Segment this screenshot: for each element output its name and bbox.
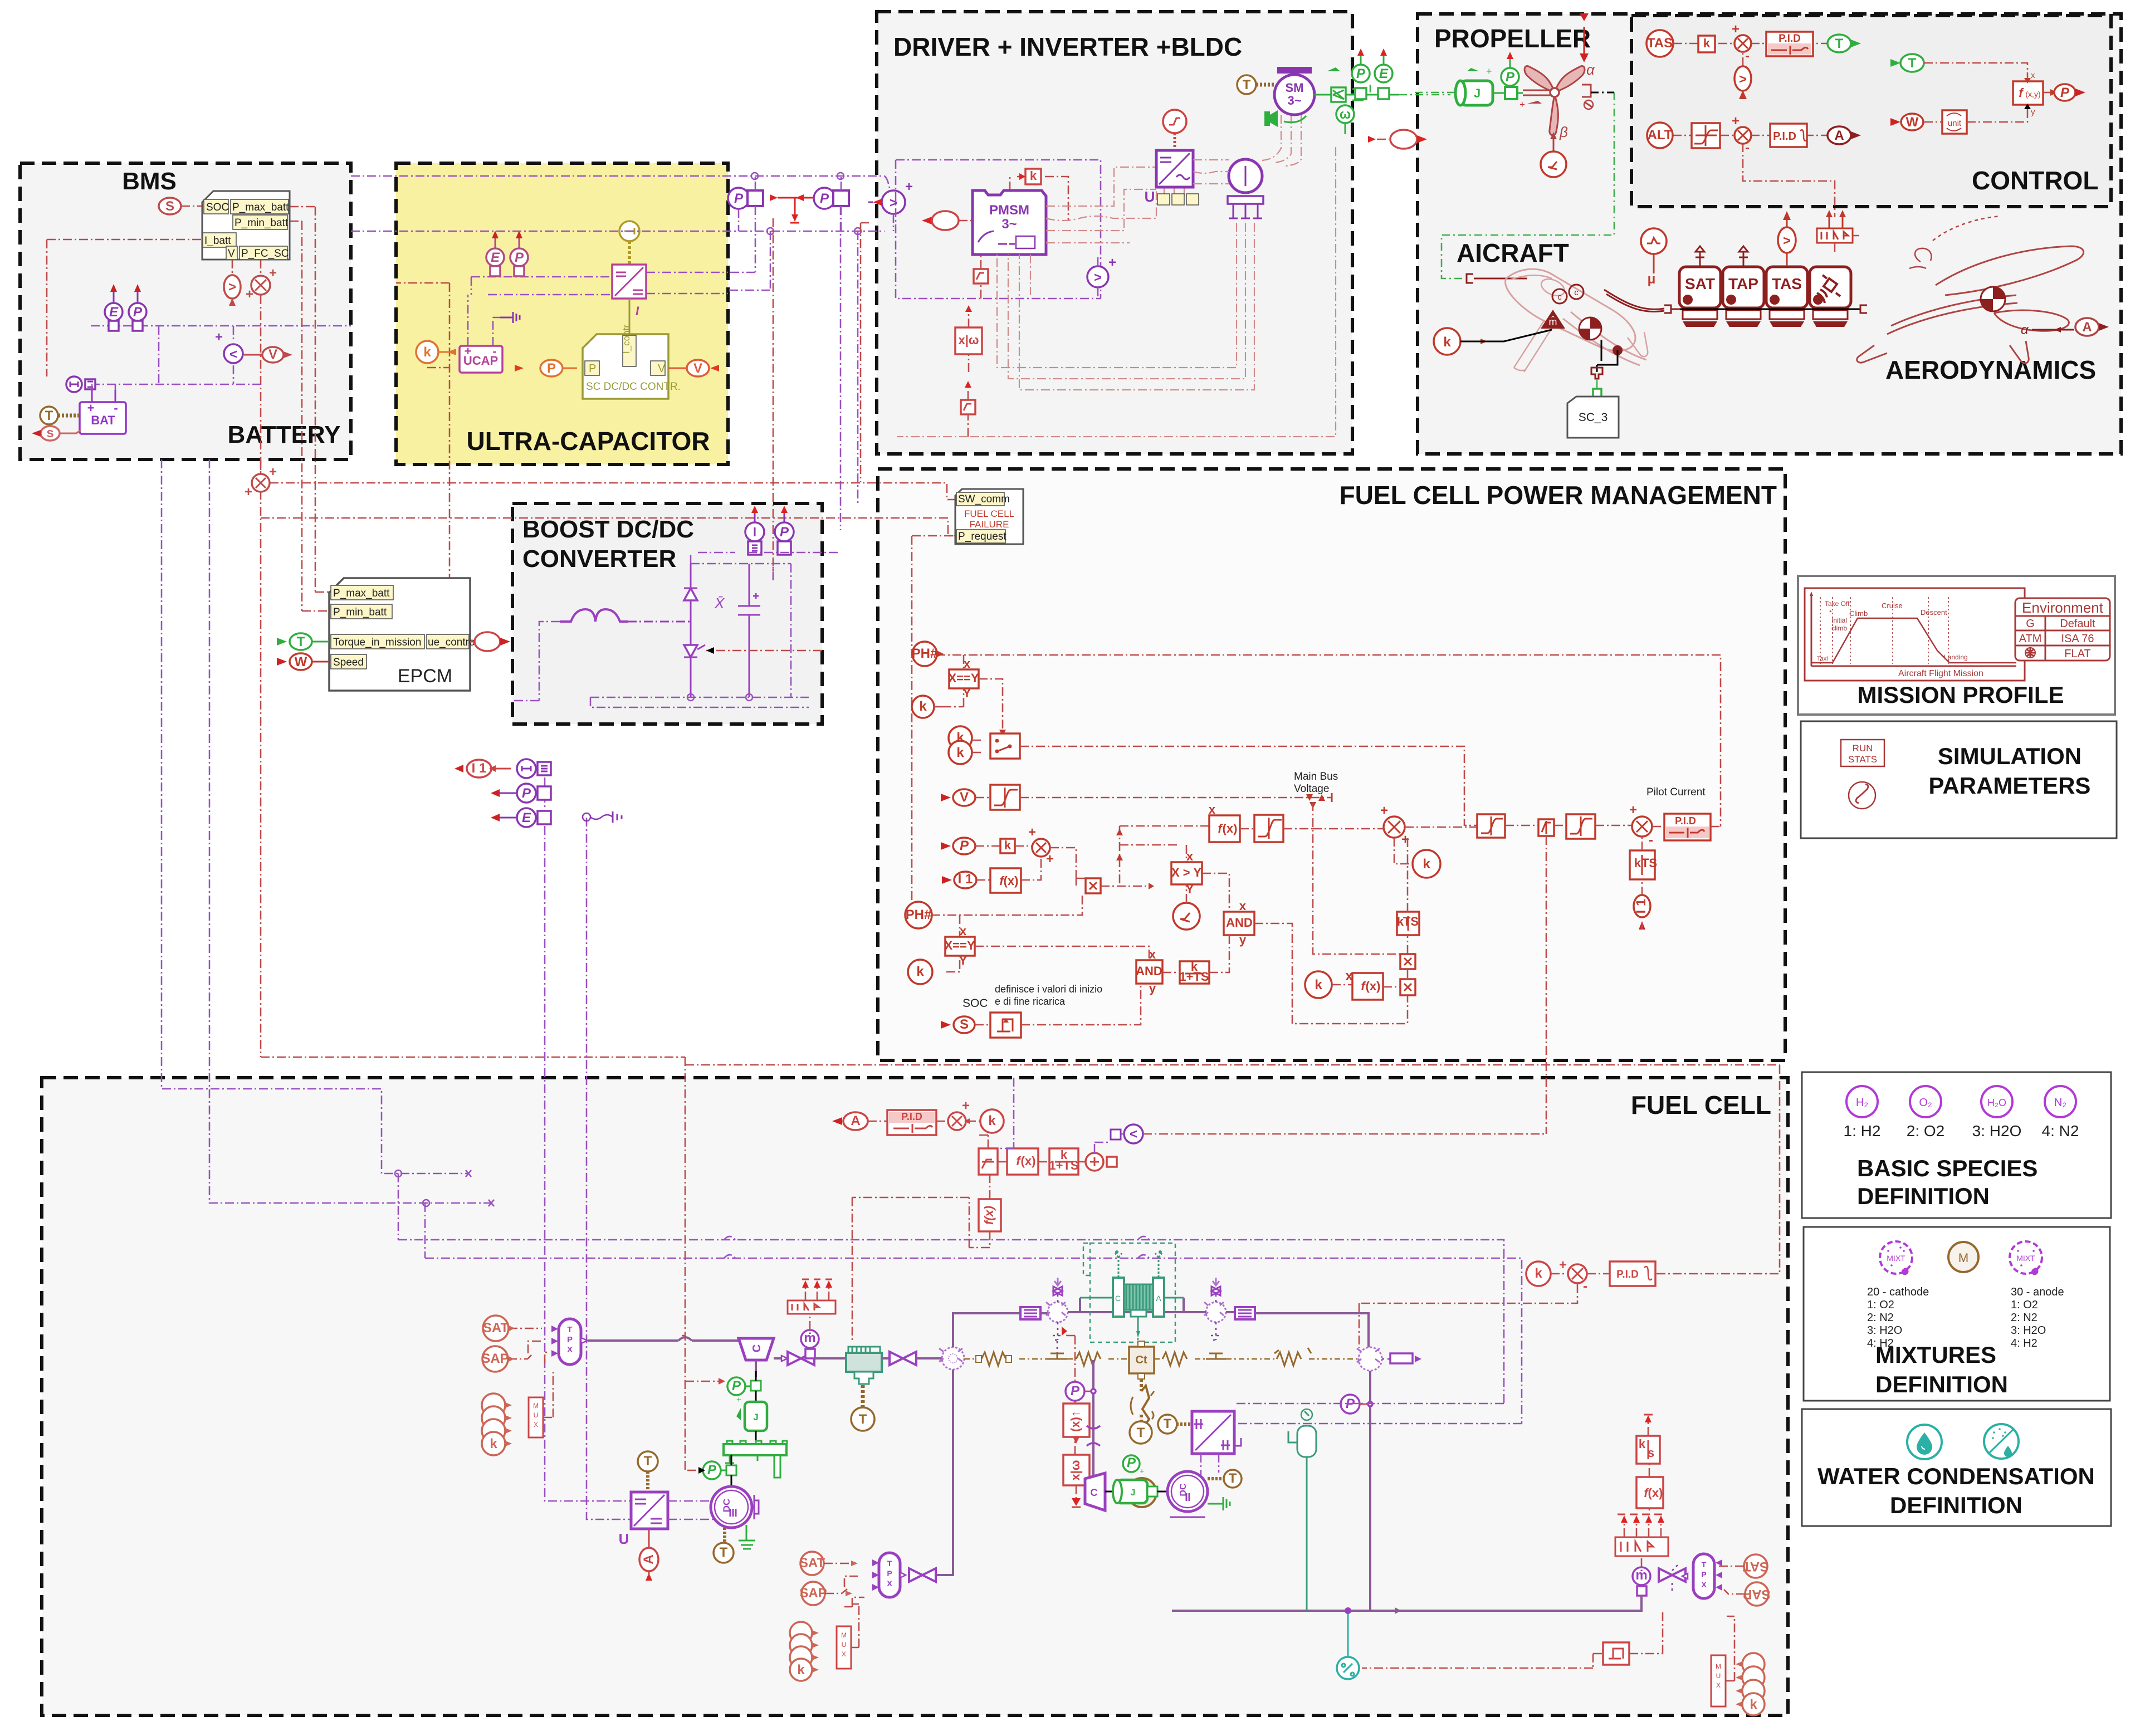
wire X==Y2 out: [975, 946, 1149, 960]
sat box 2: [961, 381, 975, 437]
red to fx chain: [1062, 1331, 1075, 1455]
svg-text:<: <: [1130, 1127, 1137, 1142]
wire red PMSM outputs to inverter: [1046, 167, 1156, 243]
svg-text:T: T: [887, 1559, 892, 1568]
wire sap up to TPX: [528, 1341, 549, 1363]
aircraft sketch light: [1506, 269, 1648, 372]
wire purple sensor rail: [698, 552, 841, 554]
svg-text:H₂: H₂: [1856, 1097, 1868, 1109]
svg-text:P: P: [522, 786, 531, 801]
svg-text:TS: TS: [1403, 915, 1419, 928]
svg-text:k: k: [988, 1113, 996, 1128]
wire AND1 out loop: [1254, 923, 1408, 1024]
svg-text:FAILURE: FAILURE: [970, 519, 1009, 530]
svg-text:k: k: [956, 745, 964, 760]
I1 out oval: [455, 760, 511, 777]
wire T to fxy: [1924, 63, 2027, 78]
brown conduction chain: [964, 1358, 1359, 1360]
svg-text:ṁ: ṁ: [804, 1331, 815, 1346]
TAS input circle: [1646, 30, 1673, 57]
riser to top rail: [953, 1313, 1020, 1347]
svg-text:TAP: TAP: [1728, 275, 1758, 292]
svg-text:SAP: SAP: [481, 1351, 509, 1366]
droplet circle: [1907, 1425, 1942, 1459]
junction curls on pair: [724, 1236, 1149, 1258]
valve X anode: [909, 1568, 936, 1582]
svg-text:M: M: [533, 1402, 539, 1410]
f hat box: [11, 0, 1001, 1231]
valve X: [788, 1352, 814, 1365]
V input oval: [941, 789, 990, 806]
MUX block 2: [837, 1604, 859, 1669]
humidifier 3 with valve: [1204, 1278, 1226, 1340]
svg-text:P: P: [820, 191, 829, 206]
DC motor 2: [1167, 1471, 1208, 1517]
junction multiplier on red bus: [245, 464, 277, 500]
wire purple node rail low: [91, 365, 262, 384]
svg-text:T: T: [644, 1454, 652, 1469]
svg-text:α: α: [1586, 61, 1595, 78]
aerodynamics aircraft sketch: [1857, 216, 2084, 363]
wire fx1 up to mult: [1021, 857, 1041, 880]
BMS / BATTERY region box: [20, 163, 351, 459]
svg-text:X: X: [887, 1579, 892, 1588]
compressor C2: [1085, 1473, 1105, 1510]
SAT source 2: [799, 1552, 858, 1575]
wire main bus vertical: [1313, 802, 1400, 954]
svg-text:e di fine ricarica: e di fine ricarica: [995, 996, 1066, 1007]
thermal port T motor: [1237, 75, 1275, 94]
P sensor lower green: [703, 1461, 726, 1479]
comparator greater-than oval: [224, 275, 241, 306]
wing link curve: [1604, 290, 1664, 312]
gain k right: [1413, 850, 1440, 878]
mech port bracket: [1467, 274, 1527, 283]
left port bracket sensors row: [1664, 305, 1680, 313]
shaft to J2: [1105, 1491, 1116, 1493]
svg-text:J: J: [1131, 1488, 1136, 1498]
demux block: [1817, 210, 1859, 254]
wire red demux stem: [809, 1313, 811, 1330]
svg-text:Voltage: Voltage: [1294, 783, 1329, 795]
BMS supercomponent SOC block: [202, 191, 290, 260]
svg-text:I: I: [636, 304, 639, 318]
comparator oval above TAS: [1778, 211, 1796, 266]
resistor 4: [1277, 1352, 1301, 1366]
first order lag under mult3: [1630, 850, 1657, 879]
svg-text:FUEL CELL: FUEL CELL: [964, 508, 1014, 519]
node junction 3: [767, 228, 774, 234]
svg-text:Torque_in_mission: Torque_in_mission: [333, 637, 421, 648]
wire green shaft input: [1415, 92, 1458, 94]
svg-text:AND: AND: [1136, 964, 1162, 978]
svg-text:P: P: [2060, 85, 2070, 100]
svg-text:ISA 76: ISA 76: [2061, 633, 2094, 645]
thermal T intercooler: [851, 1407, 874, 1431]
wire red down to boost diode: [773, 218, 774, 580]
mu friction circle: [1641, 228, 1667, 287]
shaft line under sensors: [1680, 309, 1860, 310]
wire purple ucap bottom port riser: [728, 231, 770, 290]
svg-text:1: O2: 1: O2: [2011, 1299, 2038, 1311]
resistor 2: [1076, 1352, 1101, 1366]
gain k 4: [1305, 969, 1353, 998]
svg-text:1+TS: 1+TS: [1049, 1158, 1078, 1172]
pipe to humidifier: [916, 1357, 942, 1360]
svg-text:C: C: [1091, 1487, 1098, 1498]
P out oval: [2043, 84, 2085, 101]
wire converter right ports exit: [646, 272, 728, 294]
U inverter block left: [619, 1492, 668, 1547]
svg-text:SOC: SOC: [206, 202, 229, 213]
svg-text:T: T: [297, 634, 305, 649]
current sensor circle: [215, 330, 243, 363]
H2 species circle: [1846, 1086, 1878, 1117]
gain k: [1698, 36, 1715, 52]
svg-text:X > Y: X > Y: [1171, 865, 1201, 879]
source S: [159, 198, 181, 214]
wire purple control rect around PMSM: [896, 160, 1101, 299]
svg-text:SC DC/DC CONTR.: SC DC/DC CONTR.: [586, 381, 681, 393]
svg-text:X: X: [1701, 1580, 1707, 1589]
svg-text:X: X: [1716, 1681, 1721, 1689]
gain k input: [1434, 328, 1487, 683]
O2 species circle: [1910, 1086, 1941, 1117]
propeller: [1519, 66, 1585, 135]
bottom pipe right segment: [1370, 1596, 1641, 1611]
svg-text:x: x: [1186, 849, 1194, 863]
wire red P_max_batt out: [290, 207, 315, 611]
thyristor lower: [684, 622, 705, 697]
svg-text:X: X: [842, 1650, 846, 1658]
svg-text:P_min_batt: P_min_batt: [234, 217, 289, 229]
sensor I with square: [745, 506, 764, 555]
svg-text:P: P: [547, 361, 556, 376]
svg-text:P: P: [1127, 1455, 1136, 1470]
green E sensor: [1375, 48, 1392, 99]
svg-text:I 1: I 1: [472, 761, 487, 776]
pitch command circle: [1541, 151, 1566, 177]
svg-text:BAT: BAT: [91, 413, 115, 427]
svg-text:c: c: [1574, 288, 1579, 297]
right port bracket: [1860, 305, 1867, 313]
axes: [1811, 595, 2016, 666]
svg-text:P: P: [707, 1463, 717, 1478]
gain k box: [1019, 169, 1041, 184]
svg-text:X==Y: X==Y: [944, 938, 975, 952]
fuel cell stack: [1080, 1250, 1184, 1347]
EPCM supercomponent: [329, 578, 477, 691]
svg-text:20 - cathode: 20 - cathode: [1867, 1286, 1929, 1298]
svg-text:y: y: [1149, 981, 1156, 995]
WATER CONDENSATION DEFINITION box: [1802, 1409, 2111, 1526]
svg-text:A: A: [1156, 1294, 1161, 1303]
svg-text:TAS: TAS: [1647, 36, 1673, 51]
svg-text:P: P: [1506, 70, 1515, 85]
svg-text:ω: ω: [1340, 107, 1351, 122]
svg-text:V: V: [658, 363, 666, 375]
wire magenta sensor rail to converter: [471, 277, 612, 295]
PID block: [1766, 32, 1813, 56]
x/w box: [1063, 1455, 1089, 1485]
pipe to intercooler: [814, 1357, 848, 1360]
svg-text:Environment: Environment: [2022, 599, 2104, 616]
svg-text:DEFINITION: DEFINITION: [1875, 1371, 2008, 1397]
PID integrator block: [1770, 124, 1807, 147]
wire PH2 down to X==Y2: [959, 915, 961, 937]
wire switch out to right rail: [1020, 746, 1477, 825]
bracket to SC_3: [1597, 340, 1618, 372]
TPX conditioner capsule: [551, 1319, 588, 1365]
left pipe down from humidifier1: [934, 1370, 953, 1575]
wire unit to fxy: [1924, 108, 2027, 122]
svg-text:EPCM: EPCM: [398, 666, 452, 687]
svg-text:-: -: [1745, 140, 1750, 155]
wire purple from inductor left out of box: [512, 622, 560, 701]
check valve on pipe: [1087, 1426, 1100, 1446]
svg-text:T: T: [859, 1412, 867, 1427]
T torque input green oval: [277, 633, 329, 650]
gain k box: [1000, 838, 1015, 853]
svg-text:+: +: [1629, 803, 1637, 818]
multiplier box X3: [1400, 979, 1415, 995]
svg-text:-: -: [114, 401, 118, 415]
wire purple bus 1: [162, 459, 471, 1240]
pipe to stack valve: [882, 1357, 890, 1360]
red k command arrow: [687, 1470, 698, 1471]
profile line: [1811, 618, 2016, 663]
SC_3 supercomponent: [1567, 397, 1619, 438]
Ct lower branch: [1140, 1379, 1143, 1391]
V voltage circle purple: [1124, 1124, 1143, 1143]
svg-text:DEFINITION: DEFINITION: [1890, 1492, 2022, 1518]
P sensor row: [491, 784, 551, 803]
first order lag vertical box: [1397, 912, 1419, 935]
cathode mixture circle: [1880, 1241, 1912, 1275]
SIMULATION PARAMETERS box: [1801, 721, 2117, 838]
svg-text:Ct: Ct: [1135, 1354, 1147, 1366]
svg-text:k: k: [1703, 36, 1711, 50]
svg-text:unit: unit: [1948, 119, 1962, 128]
signal to ucap lower: [427, 367, 449, 369]
sensor P with square top bus: [728, 188, 749, 209]
red gate signal: [706, 650, 822, 652]
svg-text:V: V: [960, 790, 969, 805]
pressure sensor on pipe: [1341, 1395, 1372, 1414]
T in green oval right: [1890, 54, 1924, 72]
svg-text:4: H2: 4: H2: [2011, 1337, 2037, 1349]
CONTROL region box (nested): [1631, 16, 2111, 207]
engine detail circles: [1552, 285, 1584, 304]
svg-text:ṁ: ṁ: [1635, 1568, 1647, 1583]
svg-text:Taxi: Taxi: [1817, 656, 1828, 662]
svg-text:M: M: [1958, 1251, 1968, 1265]
valve X 2: [890, 1352, 916, 1365]
wire S chain to AND2: [1021, 984, 1141, 1025]
svg-text:ULTRA-CAPACITOR: ULTRA-CAPACITOR: [467, 427, 710, 456]
svg-text:+: +: [465, 344, 472, 358]
svg-text:k: k: [1030, 169, 1037, 183]
wire to main bus node: [1020, 797, 1332, 799]
svg-text:Default: Default: [2060, 618, 2095, 630]
svg-text:I 1: I 1: [958, 872, 973, 887]
M mass circle: [1948, 1242, 1978, 1272]
SAP source circle: [481, 1346, 533, 1372]
svg-text:Main Bus: Main Bus: [1294, 771, 1338, 783]
top rail: [691, 555, 791, 697]
sum junction 2: [1732, 114, 1751, 155]
k stack 2: [790, 1622, 819, 1644]
svg-text:y: y: [1239, 933, 1247, 947]
svg-text:ue_control: ue_control: [428, 637, 477, 648]
svg-text:k: k: [1634, 856, 1641, 870]
wire green dashed shaft out to propeller: [1370, 85, 1450, 95]
f(x) box 3: [1352, 973, 1383, 1000]
svg-text:AERODYNAMICS: AERODYNAMICS: [1885, 355, 2096, 384]
multiplier box X1: [1086, 878, 1101, 893]
flow source symbol: [1582, 85, 1593, 109]
purple pair to U2: [398, 1240, 1522, 1424]
multiplier 3: [1629, 803, 1653, 848]
wire purple dc bus upper: [351, 176, 893, 202]
wire purple sensor rail: [91, 326, 351, 384]
J cylinder green: [736, 1395, 767, 1431]
svg-text:α: α: [2021, 322, 2029, 338]
wire red to SW_comm: [270, 483, 955, 500]
svg-text:STATS: STATS: [1848, 754, 1877, 765]
first order lag box: [1179, 960, 1209, 984]
svg-text:MISSION PROFILE: MISSION PROFILE: [1857, 682, 2064, 708]
svg-text:RUN: RUN: [1853, 743, 1873, 754]
output V oval red: [668, 360, 719, 376]
svg-text:A: A: [641, 1554, 656, 1564]
svg-text:S: S: [165, 199, 174, 214]
ULTRA-CAPACITOR region box: [396, 163, 728, 464]
humidifier 2 with valve: [1046, 1278, 1068, 1340]
inductor: [560, 609, 691, 622]
flight mission chart frame: [1805, 588, 2025, 681]
svg-text:C: C: [751, 1344, 763, 1352]
svg-text:CONTROL: CONTROL: [1972, 166, 2098, 195]
signal S out: [32, 426, 81, 441]
sensor P: [510, 231, 528, 276]
lower chain: sat, fx, lag, sum: [979, 1148, 998, 1175]
DC/DC converter block magenta: [612, 265, 646, 318]
X equal Y box 2: [944, 924, 975, 967]
gain k 2: [908, 960, 932, 984]
svg-text:P: P: [567, 1335, 573, 1344]
svg-text:3~: 3~: [1287, 94, 1301, 107]
svg-text:SAP: SAP: [799, 1586, 827, 1601]
green P sensor: [1352, 48, 1370, 99]
FUEL CELL POWER MANAGEMENT region box: [878, 469, 1785, 1060]
node junction 1: [751, 173, 758, 179]
svg-text:3: H2O: 3: H2O: [2011, 1324, 2046, 1337]
wire left rail P_request to PH sensors: [905, 536, 955, 915]
svg-text:+: +: [1559, 1258, 1567, 1273]
alpha label wire: [2021, 322, 2074, 338]
SAP source 3: [1724, 1582, 1771, 1606]
svg-text:k: k: [1639, 1437, 1646, 1451]
k over s box: [1636, 1415, 1660, 1464]
svg-text:FUEL CELL POWER MANAGEMENT: FUEL CELL POWER MANAGEMENT: [1340, 481, 1777, 510]
sum multiplier: [1568, 1264, 1587, 1294]
svg-text:A: A: [2082, 320, 2092, 335]
svg-text:T: T: [1243, 77, 1251, 92]
sensor P power: [129, 284, 146, 331]
J cylinder 2 green: [1113, 1466, 1147, 1503]
svg-text:x: x: [960, 924, 967, 938]
T out green oval: [1828, 35, 1861, 52]
svg-text:BMS: BMS: [122, 168, 177, 195]
svg-text:DRIVER + INVERTER +BLDC: DRIVER + INVERTER +BLDC: [893, 32, 1242, 61]
hysteresis box bottom: [1603, 1610, 1663, 1665]
valve X right: [1659, 1563, 1685, 1591]
svg-text:P.I.D: P.I.D: [1773, 130, 1796, 143]
svg-text:k: k: [919, 699, 927, 714]
wire red V port to comparator: [232, 260, 233, 277]
current source circle olive: [619, 221, 639, 265]
svg-text:E: E: [1379, 66, 1389, 81]
alpha setpoint arrow: [1580, 13, 1595, 78]
svg-text:+: +: [1732, 114, 1740, 129]
svg-text:+: +: [269, 464, 277, 480]
wire TAS chain: [1673, 43, 1835, 217]
svg-text:Landing: Landing: [1944, 653, 1968, 661]
svg-text:2: N2: 2: N2: [2011, 1312, 2037, 1324]
thermal port T: [40, 407, 79, 424]
wire mult out to X: [1050, 848, 1086, 886]
svg-text:k: k: [1535, 1266, 1542, 1281]
svg-text:U: U: [619, 1530, 629, 1547]
svg-text:+: +: [736, 1395, 741, 1405]
svg-text:x: x: [1209, 803, 1216, 816]
MISSION PROFILE box: [1798, 576, 2115, 715]
right chain saturation 4: [1566, 814, 1595, 839]
FUEL CELL region box: [42, 1078, 1788, 1715]
PID mirrored block: [887, 1110, 936, 1135]
svg-text:O₂: O₂: [1919, 1097, 1932, 1109]
svg-text:m̂: m̂: [1549, 316, 1557, 327]
svg-text:P.I.D: P.I.D: [1616, 1269, 1639, 1280]
tee 2: [1206, 1353, 1226, 1359]
wire purple bus 2: [209, 459, 494, 1258]
svg-text:MIXT: MIXT: [2016, 1254, 2035, 1263]
U2 thermal left: [1176, 1422, 1192, 1426]
svg-text:+: +: [1108, 255, 1116, 270]
svg-text:2: N2: 2: N2: [1867, 1312, 1894, 1324]
green shaft pressure sensor: [727, 1377, 751, 1395]
svg-text:AICRAFT: AICRAFT: [1457, 238, 1569, 267]
comparator oval: [1734, 66, 1751, 99]
node junction 2: [837, 173, 844, 179]
k source pair: [949, 726, 972, 750]
svg-text:SAT: SAT: [1743, 1559, 1769, 1574]
svg-text:PMSM: PMSM: [989, 203, 1029, 218]
svg-text:1: O2: 1: O2: [1867, 1299, 1894, 1311]
svg-text:A: A: [851, 1113, 860, 1128]
wire red S to SOC: [181, 206, 202, 207]
svg-text:WATER CONDENSATION: WATER CONDENSATION: [1817, 1463, 2095, 1489]
svg-text:J: J: [753, 1412, 758, 1422]
svg-text:P.I.D: P.I.D: [1675, 815, 1696, 827]
wire red inverter bottom signals: [1164, 187, 1184, 198]
wire purple down to boost right: [841, 206, 858, 530]
svg-text:E: E: [522, 810, 531, 825]
PH number circle 2: [905, 902, 932, 928]
P sensor purple: [1066, 1382, 1096, 1401]
svg-text:W: W: [295, 654, 307, 669]
